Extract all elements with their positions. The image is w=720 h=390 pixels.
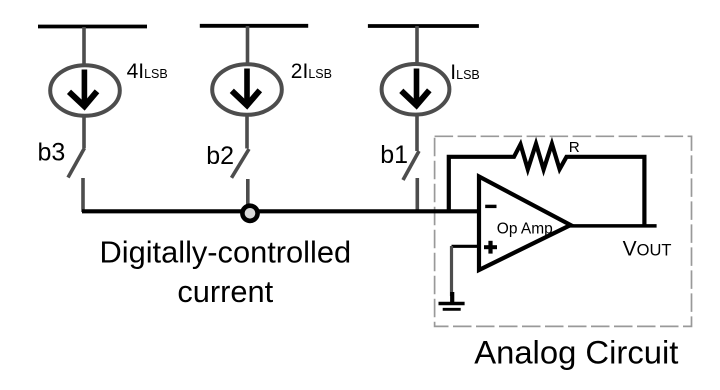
svg-text:current: current [177,274,273,309]
svg-text:VOUT: VOUT [623,237,672,260]
svg-text:Op Amp: Op Amp [497,221,553,238]
svg-text:b2: b2 [206,142,234,170]
svg-text:b1: b1 [380,141,408,169]
svg-text:R: R [569,139,580,156]
svg-text:Digitally-controlled: Digitally-controlled [99,235,351,270]
svg-text:Analog Circuit: Analog Circuit [474,334,678,371]
svg-text:b3: b3 [38,138,66,166]
